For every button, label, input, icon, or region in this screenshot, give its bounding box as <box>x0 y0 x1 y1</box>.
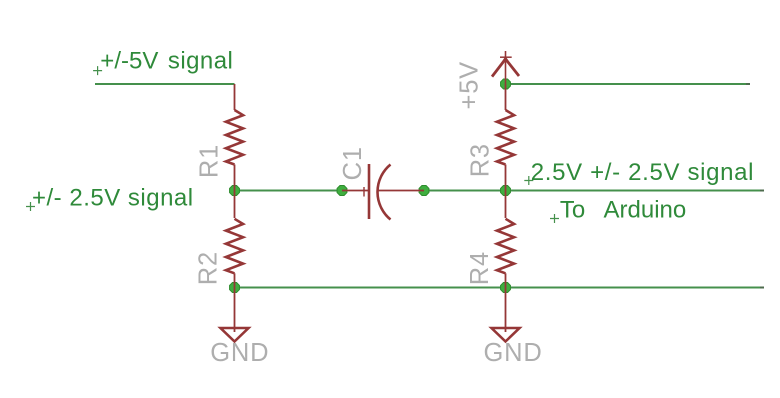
label net 2.5V +/- 2.5V signal origin cross <box>524 176 533 185</box>
svg-text:+/-5V: +/-5V <box>100 48 158 75</box>
svg-text:R1: R1 <box>196 144 224 178</box>
wire bottom net GND rail <box>235 287 761 289</box>
junction node at +5V <box>501 79 511 89</box>
capacitor C1 <box>342 164 424 220</box>
supply +5V symbol <box>492 51 519 84</box>
svg-text:+5V: +5V <box>455 61 483 109</box>
ground GND right <box>492 288 520 342</box>
junction node at R2 bottom <box>230 283 240 293</box>
svg-text:To: To <box>560 197 585 224</box>
wire bottom dark end tip <box>760 287 764 289</box>
svg-text:Arduino: Arduino <box>604 197 687 224</box>
svg-text:C1: C1 <box>339 146 367 180</box>
wire top-right dark end tip <box>746 83 750 85</box>
wire top-left net +/-5V signal <box>95 83 235 85</box>
resistor R1 <box>226 84 243 191</box>
svg-text:GND: GND <box>484 339 543 367</box>
svg-text:signal: signal <box>168 48 233 75</box>
junction node at R3 bottom <box>501 186 511 196</box>
resistor R4 <box>497 191 514 288</box>
svg-text:+/- 2.5V signal: +/- 2.5V signal <box>32 185 194 212</box>
wire middle net 2.5V <box>235 190 343 192</box>
junction node at C1 right pin <box>419 186 429 196</box>
svg-text:2.5V +/- 2.5V signal: 2.5V +/- 2.5V signal <box>531 159 754 186</box>
svg-text:R2: R2 <box>195 251 223 285</box>
svg-text:GND: GND <box>210 339 269 367</box>
junction node at C1 left pin <box>337 186 347 196</box>
label note To Arduino origin cross <box>550 214 559 223</box>
svg-text:R3: R3 <box>467 143 495 177</box>
junction node at R4 bottom <box>501 283 511 293</box>
resistor R2 <box>226 191 243 288</box>
wire middle dark end tip <box>760 190 764 192</box>
svg-text:R4: R4 <box>466 251 494 285</box>
ground GND left <box>221 288 249 342</box>
label net +/- 2.5V signal origin cross <box>26 202 35 211</box>
label net +/-5V signal origin cross <box>93 66 102 75</box>
junction node at R1 bottom <box>230 186 240 196</box>
wire top-right net +5V <box>506 83 747 85</box>
resistor R3 <box>497 84 514 191</box>
